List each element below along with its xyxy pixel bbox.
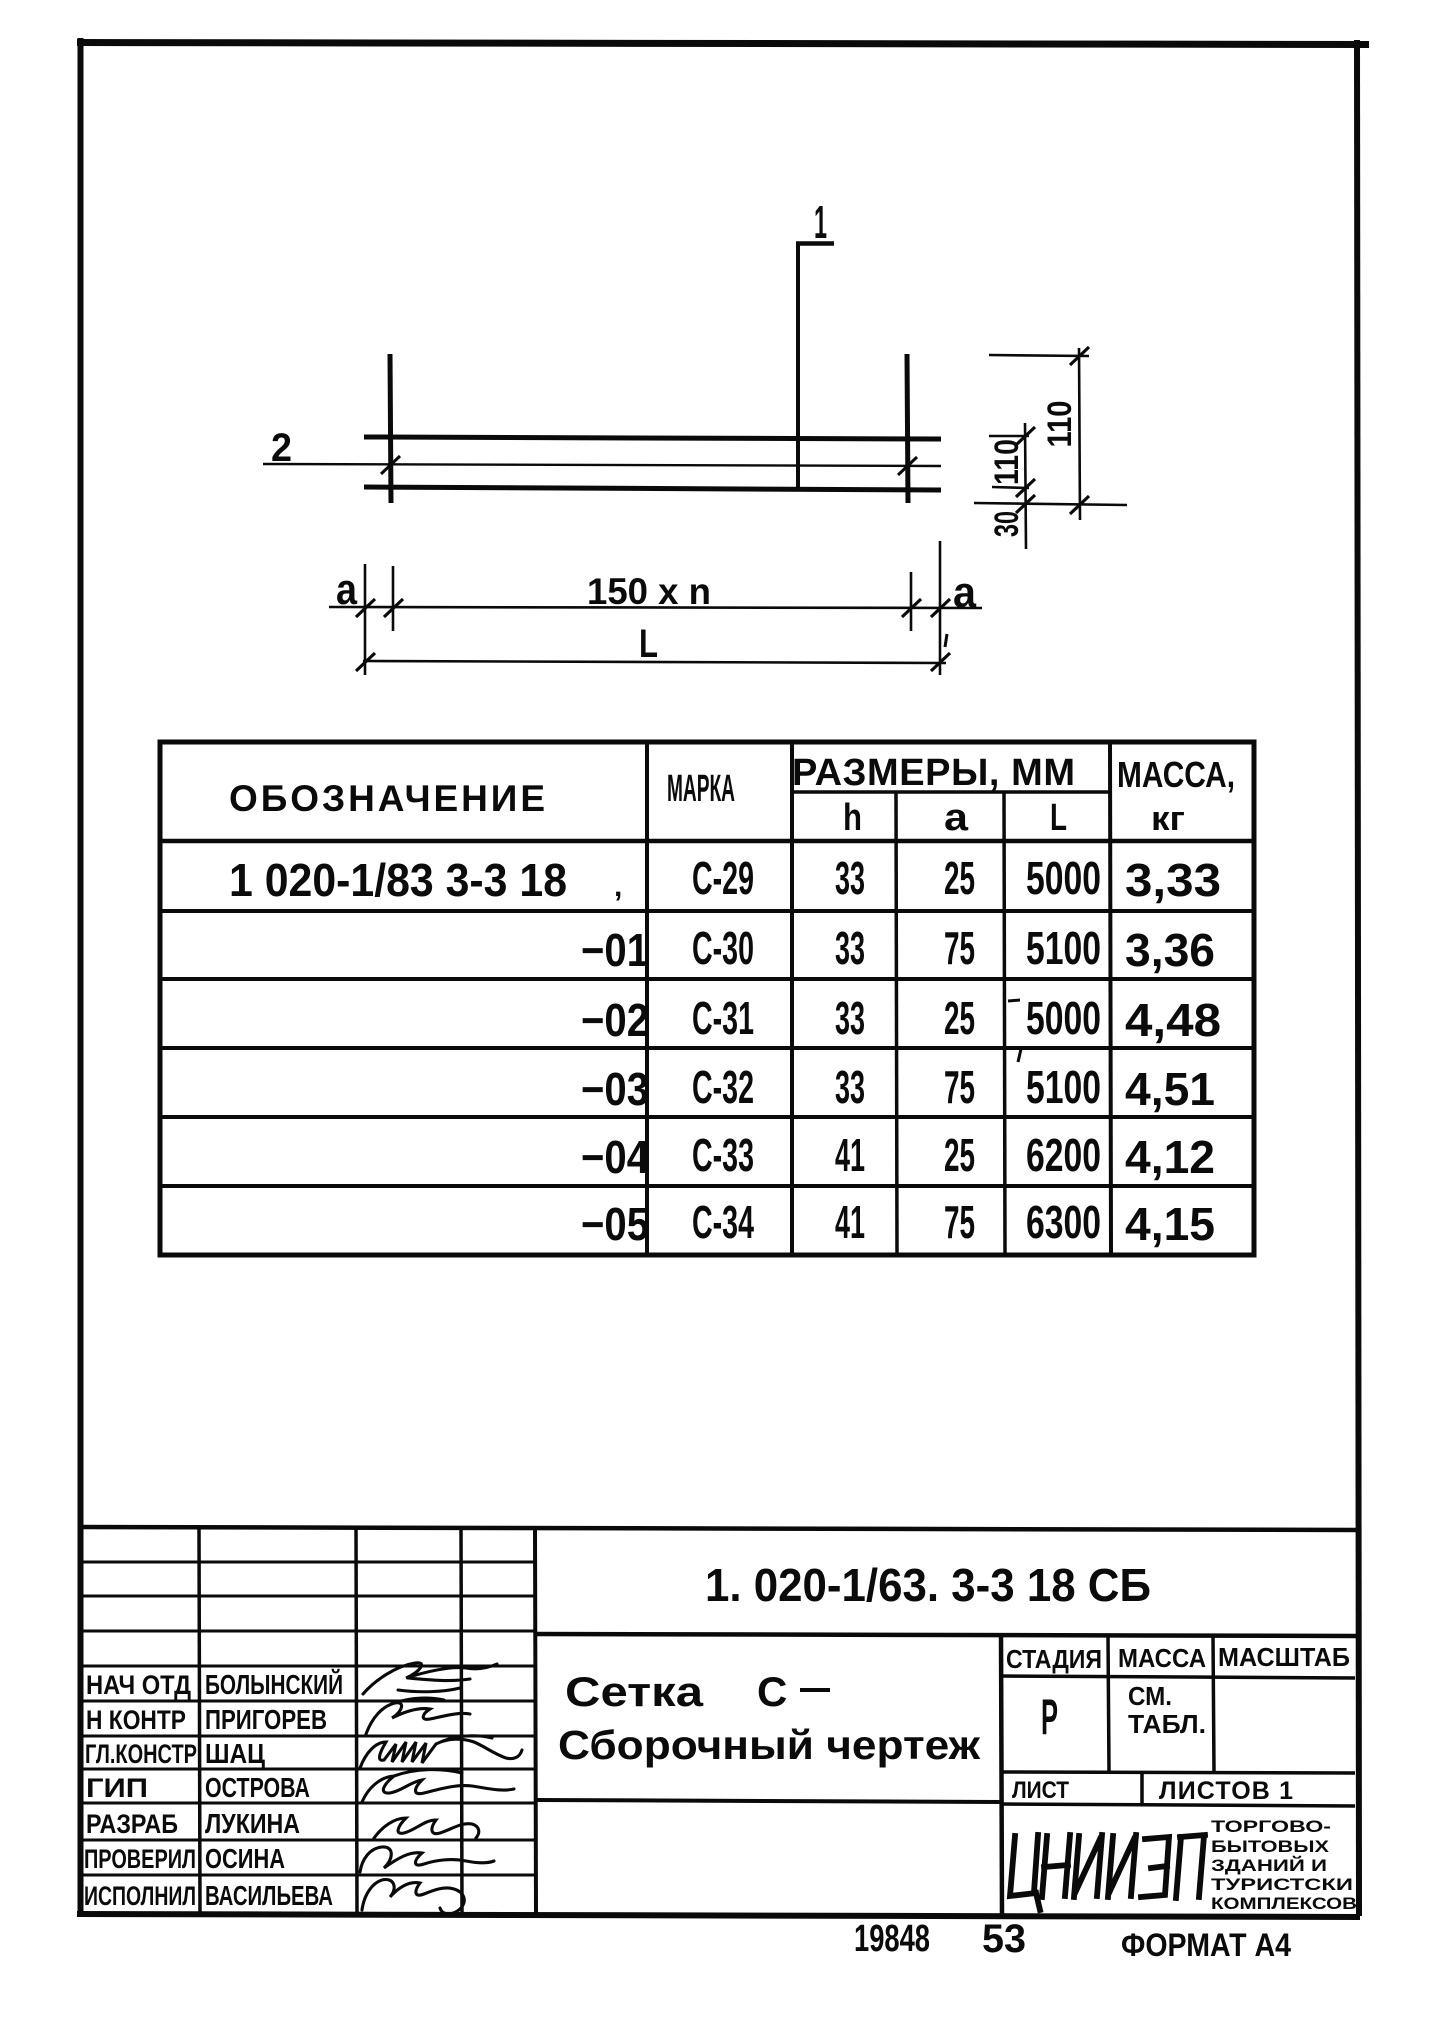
svg-text:С: С — [757, 1668, 787, 1715]
ext line a-left — [364, 564, 367, 675]
tick — [1016, 427, 1035, 445]
svg-text:НАЧ ОТД: НАЧ ОТД — [86, 1670, 191, 1700]
svg-text:2: 2 — [271, 426, 292, 470]
letter N — [1042, 1835, 1070, 1897]
svg-text:1 020-1/83 3-3 18: 1 020-1/83 3-3 18 — [229, 854, 567, 906]
svg-text:6200: 6200 — [1026, 1129, 1101, 1181]
signature row 4 — [362, 1770, 514, 1802]
tick — [1016, 479, 1035, 497]
svg-text:−03: −03 — [581, 1063, 649, 1115]
letter E — [1141, 1837, 1169, 1897]
svg-text:25: 25 — [944, 1129, 975, 1181]
svg-text:53: 53 — [982, 1917, 1026, 1961]
tick — [902, 599, 921, 617]
dim chain inner — [1025, 423, 1026, 549]
svg-text:РАЗРАБ: РАЗРАБ — [86, 1809, 178, 1839]
svg-text:−02: −02 — [581, 994, 649, 1046]
svg-text:РАЗМЕРЫ, ММ: РАЗМЕРЫ, ММ — [792, 752, 1075, 794]
svg-text:3,36: 3,36 — [1125, 924, 1215, 976]
cross wire right — [907, 354, 908, 503]
ext line a-right — [939, 541, 942, 675]
svg-text:С-30: С-30 — [692, 922, 754, 974]
svg-text:ЛИСТ: ЛИСТ — [1012, 1777, 1069, 1804]
ext line from top wire — [989, 435, 1029, 438]
svg-text:Н КОНТР: Н КОНТР — [86, 1705, 186, 1735]
institute caption — [1211, 1817, 1357, 1913]
svg-text:41: 41 — [835, 1196, 865, 1248]
svg-text:С-31: С-31 — [692, 992, 754, 1044]
dim chain outer — [1079, 348, 1080, 520]
svg-text:СМ.: СМ. — [1128, 1681, 1172, 1711]
tick — [1070, 347, 1089, 365]
svg-text:25: 25 — [944, 852, 975, 904]
svg-text:4,51: 4,51 — [1125, 1063, 1215, 1115]
svg-text:33: 33 — [835, 992, 865, 1044]
svg-text:5100: 5100 — [1026, 922, 1101, 974]
svg-text:ОСТРОВА: ОСТРОВА — [205, 1772, 310, 1803]
svg-text:ТАБЛ.: ТАБЛ. — [1128, 1709, 1206, 1739]
table header — [229, 752, 1235, 839]
svg-text:5100: 5100 — [1026, 1061, 1101, 1113]
dim line 150xn — [329, 607, 982, 608]
svg-text:МАРКА: МАРКА — [667, 768, 735, 810]
position leader 1 — [796, 243, 834, 487]
svg-text:ЗДАНИЙ И: ЗДАНИЙ И — [1211, 1856, 1327, 1875]
svg-text:МАСШТАБ: МАСШТАБ — [1218, 1642, 1350, 1672]
letter I — [1074, 1835, 1102, 1897]
svg-text:4,48: 4,48 — [1125, 994, 1221, 1046]
ext line top — [989, 355, 1089, 356]
svg-text:75: 75 — [944, 1196, 975, 1248]
ext line from bottom wire — [992, 487, 1029, 488]
svg-text:1: 1 — [814, 196, 827, 248]
svg-text:С-32: С-32 — [692, 1061, 754, 1113]
svg-text:С-29: С-29 — [692, 852, 754, 904]
svg-text:110: 110 — [1041, 401, 1079, 448]
dim line L — [363, 661, 946, 663]
svg-text:ПРОВЕРИЛ: ПРОВЕРИЛ — [84, 1844, 196, 1874]
table rows — [229, 852, 1221, 1250]
svg-text:кг: кг — [1151, 800, 1185, 838]
signature row 3 — [360, 1736, 522, 1768]
svg-text:41: 41 — [835, 1129, 865, 1181]
svg-text:ТУРИСТСКИ: ТУРИСТСКИ — [1211, 1875, 1353, 1894]
cross wire left — [390, 354, 391, 503]
tick — [931, 653, 950, 671]
svg-text:5000: 5000 — [1026, 992, 1101, 1044]
svg-text:ТОРГОВО-: ТОРГОВО- — [1211, 1817, 1331, 1836]
signature row 7 — [362, 1879, 464, 1913]
signature row 5 — [374, 1818, 479, 1838]
svg-text:БОЛЫНСКИЙ: БОЛЫНСКИЙ — [205, 1668, 343, 1700]
signature row 1 — [363, 1663, 497, 1694]
svg-text:L: L — [1050, 797, 1067, 839]
tick — [356, 653, 375, 671]
svg-text:С-33: С-33 — [692, 1129, 754, 1181]
svg-text:МАССА,: МАССА, — [1117, 754, 1235, 795]
svg-text:4,12: 4,12 — [1125, 1131, 1215, 1183]
svg-text:a: a — [336, 565, 357, 614]
svg-text:ГИП: ГИП — [86, 1773, 148, 1803]
logo CNIIEP — [1010, 1835, 1205, 1910]
svg-text:ОБОЗНАЧЕНИЕ: ОБОЗНАЧЕНИЕ — [229, 778, 545, 819]
tick — [1070, 496, 1089, 514]
letter P — [1176, 1835, 1205, 1898]
tick — [384, 599, 403, 617]
signature row 2 — [366, 1698, 470, 1734]
svg-text:a: a — [953, 568, 976, 617]
svg-text:1. 020-1/63. 3-3 18 СБ: 1. 020-1/63. 3-3 18 СБ — [705, 1559, 1151, 1611]
signature row 6 — [360, 1847, 494, 1872]
svg-text:h: h — [843, 797, 862, 839]
svg-text:Р: Р — [1041, 1689, 1058, 1745]
svg-text:С-34: С-34 — [692, 1196, 754, 1248]
wire top (longitudinal bar) — [364, 437, 941, 439]
svg-text:a: a — [944, 797, 969, 839]
svg-text:30: 30 — [988, 511, 1026, 537]
svg-text:150 x n: 150 x n — [587, 571, 711, 612]
title block roles — [84, 1670, 197, 1911]
svg-text:3,33: 3,33 — [1125, 854, 1221, 906]
svg-text:ПРИГОРЕВ: ПРИГОРЕВ — [205, 1704, 327, 1735]
svg-text:БЫТОВЫХ: БЫТОВЫХ — [1211, 1837, 1330, 1856]
svg-text:75: 75 — [944, 1061, 975, 1113]
svg-text:33: 33 — [835, 922, 865, 974]
letter Ts — [1010, 1835, 1040, 1910]
signatures — [360, 1663, 522, 1914]
ext line right bar — [910, 572, 913, 631]
stray scan marks — [945, 634, 1021, 1062]
stamp right labels — [1006, 1642, 1350, 1805]
svg-text:СТАДИЯ: СТАДИЯ — [1006, 1644, 1102, 1674]
ext line left bar — [392, 566, 395, 631]
svg-text:ШАЦ: ШАЦ — [205, 1738, 265, 1769]
svg-text:,: , — [614, 870, 622, 903]
svg-text:4,15: 4,15 — [1125, 1198, 1215, 1250]
ext line bottom — [974, 503, 1127, 505]
svg-text:ЛУКИНА: ЛУКИНА — [205, 1808, 300, 1839]
svg-text:−05: −05 — [581, 1198, 649, 1250]
arrow tick right on middle wire — [898, 457, 917, 475]
svg-text:L: L — [639, 622, 658, 666]
svg-text:ЛИСТОВ 1: ЛИСТОВ 1 — [1159, 1777, 1293, 1805]
svg-text:19848: 19848 — [854, 1918, 930, 1960]
svg-text:МАССА: МАССА — [1118, 1643, 1206, 1673]
svg-text:6300: 6300 — [1026, 1196, 1101, 1248]
svg-text:33: 33 — [835, 852, 865, 904]
svg-text:ИСПОЛНИЛ: ИСПОЛНИЛ — [84, 1881, 196, 1911]
arrow tick left on middle wire — [381, 456, 400, 474]
tick — [356, 599, 375, 617]
svg-text:ВАСИЛЬЕВА: ВАСИЛЬЕВА — [205, 1880, 333, 1911]
svg-text:Сетка: Сетка — [565, 1668, 704, 1715]
svg-text:110: 110 — [988, 439, 1026, 485]
svg-text:25: 25 — [944, 992, 975, 1044]
svg-text:−01: −01 — [581, 924, 649, 976]
tick — [931, 599, 950, 617]
wire bottom — [364, 487, 941, 490]
svg-text:75: 75 — [944, 922, 975, 974]
wire middle (thin, with leader to label 2) — [263, 464, 941, 466]
svg-text:ОСИНА: ОСИНА — [205, 1843, 285, 1874]
svg-text:КОМПЛЕКСОВ: КОМПЛЕКСОВ — [1211, 1894, 1357, 1913]
svg-text:Сборочный чертеж: Сборочный чертеж — [558, 1722, 981, 1768]
svg-text:ГЛ.КОНСТР: ГЛ.КОНСТР — [85, 1739, 197, 1769]
svg-text:ФОРМАТ А4: ФОРМАТ А4 — [1121, 1927, 1291, 1963]
letter I2 — [1108, 1835, 1136, 1897]
svg-text:33: 33 — [835, 1061, 865, 1113]
svg-text:5000: 5000 — [1026, 852, 1101, 904]
tick — [1016, 495, 1035, 513]
svg-text:−04: −04 — [581, 1131, 649, 1183]
title block names — [205, 1668, 343, 1911]
